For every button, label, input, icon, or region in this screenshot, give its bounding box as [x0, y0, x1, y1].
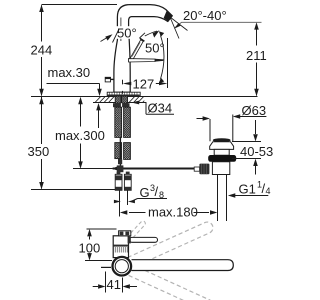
svg-text:41: 41 [107, 277, 121, 292]
svg-text:50°: 50° [117, 26, 137, 41]
svg-text:max.300: max.300 [55, 128, 105, 143]
dim 40-53 [232, 120, 273, 175]
svg-text:211: 211 [246, 48, 267, 63]
drain body [212, 162, 229, 175]
label max.30 [47, 65, 102, 128]
label dia34 [131, 100, 174, 115]
gray pill lower [116, 259, 215, 300]
svg-text:350: 350 [28, 144, 50, 159]
svg-text:20°-40°: 20°-40° [183, 8, 227, 23]
spout outlet dark tip [164, 10, 173, 21]
svg-text:G: G [140, 185, 150, 200]
dim max.300 [55, 97, 113, 169]
handle swing arc [159, 31, 164, 83]
drain tail pipe [218, 175, 227, 222]
dashed raised handle [125, 220, 146, 242]
handle stick raised [130, 38, 144, 60]
front spout nose circle [113, 257, 132, 276]
rod adapter [118, 159, 122, 164]
bottom ref line [31, 189, 119, 191]
front view body [113, 236, 128, 258]
shank below base [113, 96, 130, 107]
dim 211 [246, 22, 267, 96]
hoses lower segment [115, 143, 131, 160]
tail ext lines [120, 190, 128, 216]
label G1 1/4 [228, 180, 271, 198]
svg-text:max.30: max.30 [48, 65, 91, 80]
label 20-40 [170, 8, 262, 39]
drain plug [213, 138, 231, 142]
gray pill upper [116, 220, 215, 273]
label dia63 [197, 103, 267, 141]
label 50 deg spout [101, 26, 160, 43]
svg-text:G1: G1 [239, 182, 256, 197]
dim 41 [93, 272, 137, 293]
drain neck [214, 149, 229, 155]
pull rod thin [119, 137, 121, 166]
dim max.180 [120, 205, 217, 220]
faucet body and spout tube [114, 5, 172, 93]
svg-text:/: / [155, 184, 159, 199]
front view handle base [119, 231, 131, 236]
counter line [31, 96, 258, 98]
svg-text:40-53: 40-53 [240, 144, 273, 159]
svg-text:244: 244 [31, 43, 53, 58]
front spout pill [132, 260, 234, 271]
handle horizontal [129, 59, 164, 62]
hose end fittings G3/8 [115, 172, 131, 191]
pull-rod knob [105, 77, 114, 82]
drain flange [210, 142, 234, 150]
deck bottom line [93, 102, 146, 104]
spout inner wall line [120, 18, 122, 42]
front view handle lever [130, 237, 158, 242]
svg-text:100: 100 [79, 241, 101, 256]
horizontal pop-up rod [112, 165, 194, 172]
label G3/8 [114, 183, 167, 203]
hoses upper segment [115, 107, 131, 137]
svg-text:max.180: max.180 [148, 205, 198, 220]
drain seal ring [208, 155, 236, 162]
svg-text:50°: 50° [145, 41, 165, 56]
dim 127 [123, 38, 168, 94]
svg-text:4: 4 [266, 186, 271, 196]
svg-text:Ø34: Ø34 [148, 100, 173, 115]
front pull rod tick [101, 266, 111, 268]
base escutcheon [107, 92, 140, 96]
dim 244 [31, 5, 118, 97]
drain side knob [194, 164, 209, 175]
svg-text:127: 127 [133, 76, 155, 91]
deck hatching [95, 97, 144, 103]
dim 350 [28, 97, 50, 190]
svg-text:Ø63: Ø63 [242, 103, 267, 118]
dim 100 [79, 229, 117, 261]
